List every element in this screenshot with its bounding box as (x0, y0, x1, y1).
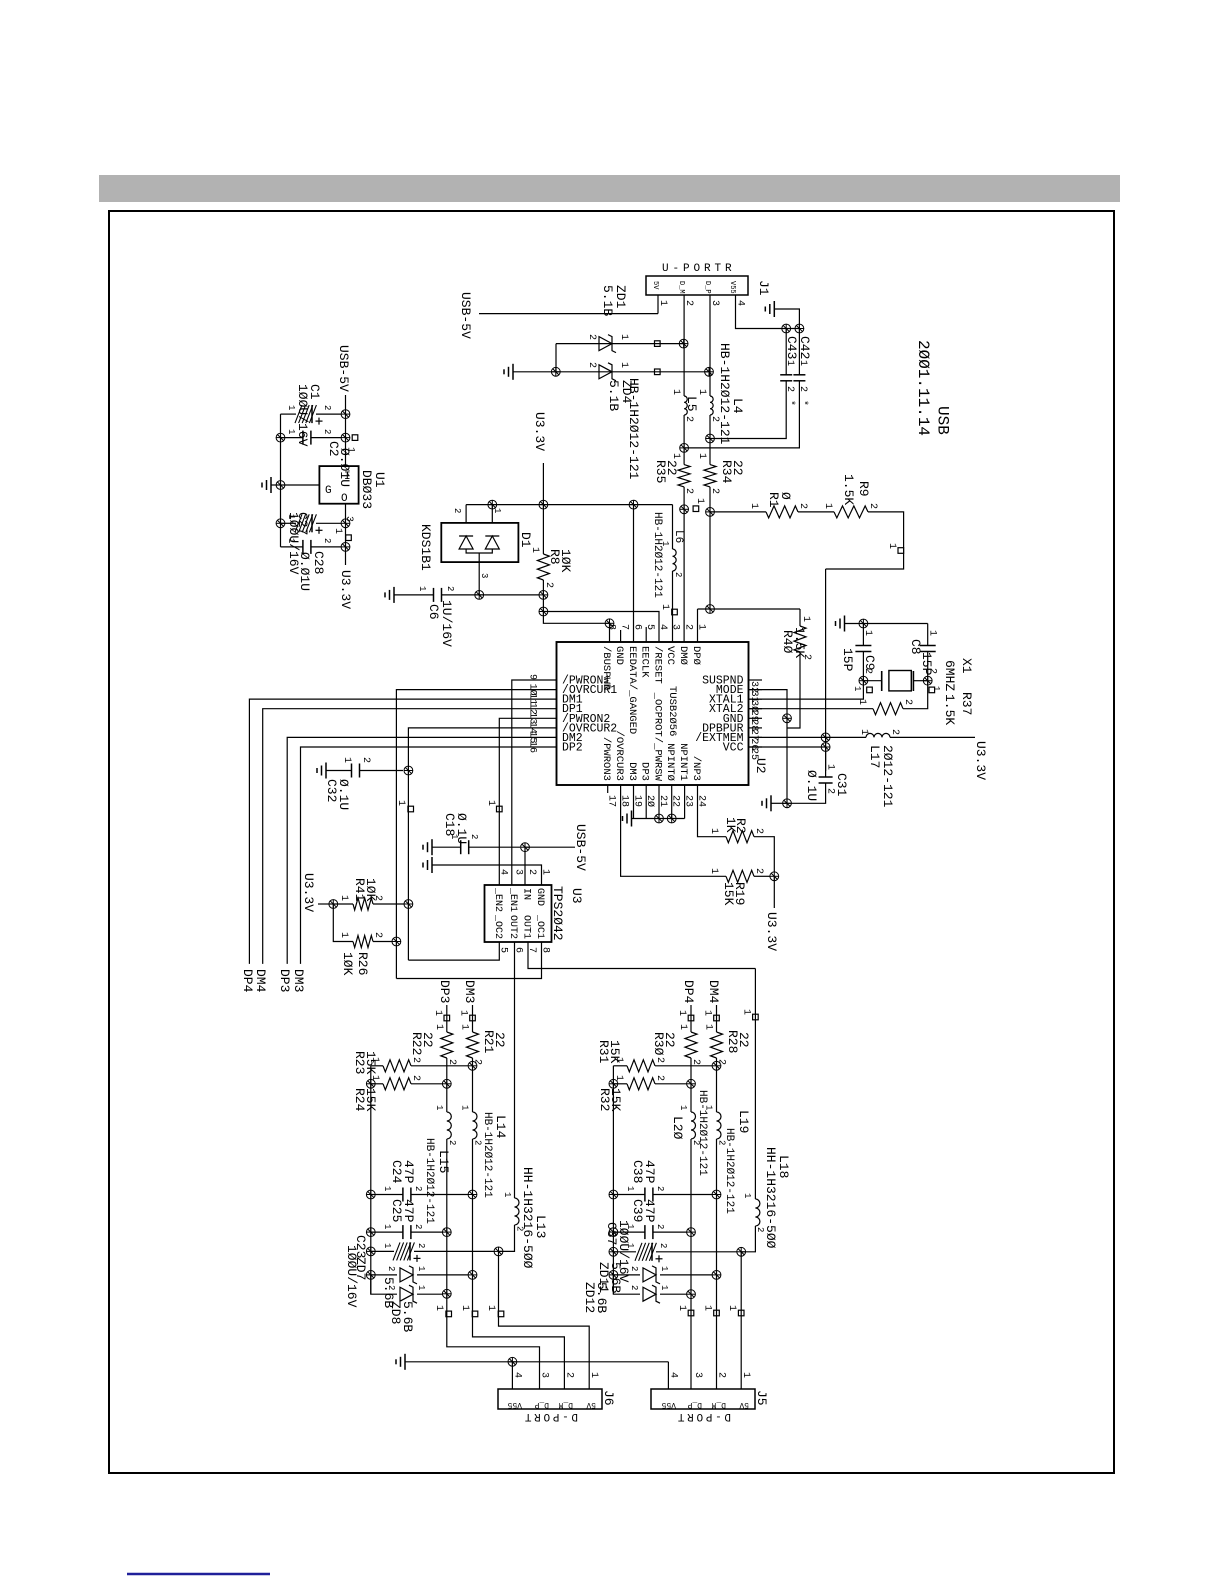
svg-text:1: 1 (822, 503, 833, 509)
svg-text:1: 1 (345, 447, 356, 453)
svg-text:47P: 47P (642, 1199, 657, 1223)
J5 pin4 wire (667, 1362, 669, 1389)
svg-text:3: 3 (709, 300, 720, 306)
junction C42 row rail684 (680, 444, 689, 453)
junction crystal right (923, 676, 932, 685)
regulator output rail (345, 504, 347, 565)
svg-text:2: 2 (902, 699, 913, 705)
rails DP3/DM3 down (446, 1139, 448, 1294)
svg-text:DM3: DM3 (291, 969, 306, 992)
svg-text:1.5K: 1.5K (942, 694, 957, 725)
junction C9 top (859, 619, 868, 628)
connector J6 D-PORT box (498, 1389, 602, 1409)
resistor R40 1.5K (799, 609, 801, 626)
svg-text:1: 1 (286, 538, 296, 543)
svg-text:L2Ø: L2Ø (670, 1116, 685, 1140)
svg-text:TUSB2Ø56: TUSB2Ø56 (666, 686, 678, 736)
rail x=710 segment (709, 372, 711, 396)
svg-text:5V: 5V (651, 281, 659, 290)
DM3 rail staircase to J6 pin2 (473, 1275, 565, 1389)
svg-text:2: 2 (322, 538, 332, 543)
svg-text:USB-5V: USB-5V (336, 345, 351, 392)
DM3 rail top (472, 1005, 474, 1032)
svg-text:HB-1H2Ø12-121: HB-1H2Ø12-121 (717, 343, 732, 445)
svg-text:2: 2 (469, 834, 479, 839)
J5 rail stubs (688, 1310, 694, 1316)
svg-text:2: 2 (927, 668, 938, 674)
svg-text:1: 1 (742, 1193, 752, 1198)
capacitor C23 100U/16V row (polarized) (366, 1247, 375, 1256)
svg-text:9: 9 (527, 674, 538, 680)
svg-text:DM4: DM4 (706, 980, 721, 1004)
svg-text:1: 1 (676, 1010, 687, 1016)
svg-text:D-PORT: D-PORT (522, 1410, 578, 1422)
svg-text:5V: 5V (739, 1400, 749, 1409)
svg-text:L13: L13 (533, 1215, 548, 1238)
svg-text:USB-5V: USB-5V (458, 292, 473, 339)
U3 OUT2 pin6 rail down to L13 (514, 942, 516, 1198)
rail710 R34 to junction (709, 487, 711, 512)
svg-text:1: 1 (395, 800, 406, 806)
svg-text:C28: C28 (311, 551, 326, 574)
svg-text:2: 2 (526, 869, 537, 875)
svg-text:1: 1 (670, 389, 681, 395)
svg-text:HB-1H2Ø12-121: HB-1H2Ø12-121 (696, 1090, 708, 1176)
svg-text:1: 1 (726, 1305, 737, 1311)
svg-text:1U/16V: 1U/16V (439, 600, 454, 647)
wire pin14 OVRCUR2 to column x=408 (408, 728, 556, 960)
svg-text:Ø.1U: Ø.1U (336, 779, 351, 810)
J1 pin 2 wire (rail x=684) (683, 295, 685, 344)
junction pin22 gnd (667, 814, 676, 823)
junction R31/DM4 (712, 1061, 721, 1070)
junction C43 top (782, 324, 791, 333)
svg-text:VCC: VCC (723, 742, 744, 755)
svg-text:5.6B: 5.6B (594, 1282, 609, 1313)
capacitor C18 and grounds (431, 839, 433, 855)
wire USB-5V to J1 pin1 (479, 313, 658, 315)
zener diode ZD4 (599, 365, 612, 379)
svg-text:U2: U2 (753, 758, 768, 774)
wire C8 bottom to junction (927, 652, 929, 681)
junction rail543 top (539, 500, 548, 509)
wire IC pin6 EEDATA riser (633, 505, 635, 642)
rail710 to R34 (709, 439, 711, 465)
U3 OUT1 pin7 wire to right port group (528, 942, 755, 969)
ground at IC pin19 (633, 785, 635, 819)
svg-text:U3.3V: U3.3V (973, 741, 988, 780)
svg-text:1: 1 (341, 757, 352, 763)
ground C31 (770, 795, 772, 811)
svg-text:1: 1 (708, 868, 719, 874)
wire C42 bottom to node (685, 381, 799, 448)
page gray header bar (99, 175, 1120, 202)
svg-text:22: 22 (730, 460, 745, 476)
svg-text:1: 1 (382, 1243, 392, 1248)
J6 pin4 wire (511, 1362, 513, 1389)
wire pin16 DP2 to far-left column DM3 (301, 747, 557, 964)
svg-text:5.6B: 5.6B (608, 1262, 623, 1293)
svg-text:1: 1 (703, 1024, 714, 1030)
svg-text:47P: 47P (401, 1160, 416, 1184)
junction crystal left (859, 676, 868, 685)
svg-text:J6: J6 (601, 1390, 616, 1406)
svg-text:U3.3V: U3.3V (764, 912, 779, 951)
svg-text:1: 1 (858, 729, 869, 735)
svg-text:1: 1 (485, 1305, 496, 1311)
capacitor C38 row (609, 1190, 618, 1199)
svg-text:HH-1H3216-5ØØ: HH-1H3216-5ØØ (763, 1147, 778, 1249)
resistor R22 22 (441, 1032, 453, 1058)
stub near rail684 (693, 506, 699, 512)
svg-text:1: 1 (659, 1285, 669, 1290)
svg-text:1: 1 (741, 1009, 752, 1015)
svg-text:IN: IN (521, 888, 532, 900)
junction left rail C2 row (276, 433, 285, 442)
rail x=543 from label (542, 463, 544, 505)
U3 GND pin1 to ground (431, 857, 433, 873)
DP3 rail staircase to J6 pin3 (447, 1294, 540, 1389)
rail x=710 segment 2 (709, 415, 711, 439)
svg-text:2: 2 (862, 668, 873, 674)
svg-text:2: 2 (654, 1075, 665, 1081)
svg-text:2: 2 (716, 1372, 727, 1378)
rail DM3 segment (472, 1058, 474, 1112)
svg-text:D_P: D_P (687, 1400, 702, 1409)
svg-text:J5: J5 (754, 1390, 769, 1406)
svg-text:22: 22 (662, 1032, 677, 1048)
resistor R32 15K (609, 1079, 618, 1088)
svg-text:22: 22 (492, 1032, 507, 1048)
svg-text:HB-1H2Ø12-121: HB-1H2Ø12-121 (423, 1138, 435, 1224)
svg-text:1: 1 (502, 1192, 512, 1197)
junction R24/DP3 (442, 1079, 451, 1088)
svg-text:C42: C42 (797, 336, 812, 359)
inductor L14 (473, 1112, 478, 1139)
capacitor C25 row (366, 1228, 375, 1237)
svg-text:1: 1 (927, 630, 938, 636)
svg-text:2: 2 (372, 895, 383, 901)
svg-text:2: 2 (360, 757, 371, 763)
svg-text:/OVRCUR3: /OVRCUR3 (613, 731, 625, 781)
inductor L4 (710, 396, 713, 415)
svg-text:GND: GND (534, 888, 545, 906)
svg-text:R19: R19 (732, 882, 747, 905)
junction GND pin28 on rail787 (783, 714, 792, 723)
svg-text:D_M: D_M (711, 1400, 726, 1409)
svg-text:7: 7 (619, 624, 630, 630)
svg-text:L19: L19 (736, 1110, 751, 1133)
left group DP3 rail (446, 1005, 448, 1032)
wire pin12 DP1 to far-left column DM4 (263, 709, 557, 964)
wire C8 drop (927, 624, 929, 646)
svg-text:_EN1: _EN1 (507, 887, 518, 912)
wire C31 bottom to ground junction (787, 783, 826, 803)
svg-text:TPS2Ø42: TPS2Ø42 (550, 886, 565, 941)
junction left rail C27 row (276, 519, 285, 528)
inductor L18 (755, 1199, 760, 1226)
rail684 to R35 (683, 448, 685, 465)
junction D1 pin3 / C6 row (475, 591, 484, 600)
zener ZD1 row wire (555, 344, 557, 372)
svg-text:DP4: DP4 (681, 980, 696, 1004)
svg-text:2: 2 (413, 1224, 423, 1229)
svg-text:1: 1 (856, 699, 867, 705)
svg-text:6MHZ: 6MHZ (942, 660, 957, 691)
zener ZD11 row (609, 1271, 618, 1280)
capacitor C9 15P (855, 645, 871, 647)
svg-text:L4: L4 (730, 398, 745, 414)
capacitor C42 (793, 374, 805, 376)
svg-text:1: 1 (678, 1105, 688, 1110)
svg-text:U3: U3 (569, 888, 584, 904)
crystal pin stubs (867, 687, 873, 693)
wire D1 top row (466, 504, 672, 506)
svg-text:C43: C43 (784, 336, 799, 359)
zener ZD4 row wire (513, 371, 708, 373)
capacitor C1 100U/16V (polarized) (281, 413, 297, 415)
svg-text:2ØØ1.11.14: 2ØØ1.11.14 (914, 340, 932, 436)
svg-text:2: 2 (797, 503, 808, 509)
svg-text:ZD7: ZD7 (353, 1257, 368, 1280)
inductor L6 on VCC pin3 (672, 505, 674, 549)
svg-text:2: 2 (446, 1059, 457, 1065)
resistor R23 15K (371, 1065, 383, 1067)
svg-text:GND: GND (613, 646, 625, 665)
svg-text:ZD1: ZD1 (613, 285, 628, 309)
capacitor C27 100U/16V (polarized) (281, 522, 297, 524)
J6 rail stubs (446, 1311, 452, 1317)
svg-text:1: 1 (702, 1305, 713, 1311)
svg-text:R9: R9 (856, 481, 871, 497)
svg-text:22: 22 (664, 460, 679, 476)
svg-text:1: 1 (338, 932, 349, 938)
resistor R35 22 (678, 465, 690, 487)
wire R9 to rail top corner (826, 512, 904, 569)
resistor R37 1.5K on XTAL2 (749, 708, 874, 710)
svg-text:HB-1H2Ø12-121: HB-1H2Ø12-121 (723, 1128, 735, 1214)
capacitor C37 100U/16V row (polarized) (609, 1247, 618, 1256)
IC U3 TPS2042 box (485, 885, 552, 942)
svg-text:2: 2 (322, 405, 332, 410)
capacitor C24 row (366, 1190, 375, 1199)
svg-text:1: 1 (696, 624, 707, 630)
svg-text:1: 1 (862, 630, 873, 636)
svg-text:DBØ33: DBØ33 (359, 470, 374, 509)
svg-text:2: 2 (658, 1243, 668, 1248)
wire pin13 PWRON2 to U3 EN2 (499, 718, 556, 885)
right group DP4 rail (690, 1005, 692, 1032)
svg-text:DM3: DM3 (462, 980, 477, 1003)
svg-text:1: 1 (659, 604, 670, 610)
D1 pin1 wire (491, 505, 493, 523)
svg-text:2: 2 (655, 1224, 665, 1229)
capacitor C8 15P (920, 645, 936, 647)
crystal X1 symbol (863, 680, 881, 682)
wire reset line rail543 to IC pin4 (543, 612, 659, 643)
svg-text:2: 2 (629, 1266, 639, 1271)
svg-text:1: 1 (529, 547, 540, 553)
ZD1 pin stub (655, 341, 661, 347)
resistor R9 1.5K (834, 506, 868, 518)
rail684 down to IC pin2 DM0 (683, 509, 685, 642)
stub on x=903 wire (898, 548, 904, 554)
svg-text:/NP3: /NP3 (690, 756, 702, 781)
IC top pin stubs 7 5 4 3 (620, 630, 622, 642)
svg-text:2: 2 (372, 932, 383, 938)
wire pin15 DM2 to far-left column DP3 (287, 737, 556, 964)
junction rail710 y=512 (R1 feed) (706, 508, 715, 517)
resistor R26 10K (333, 904, 353, 942)
svg-text:DP3: DP3 (639, 762, 651, 781)
svg-text:L6: L6 (672, 530, 684, 543)
ground C6 (393, 587, 395, 603)
junction C27 row (341, 519, 350, 528)
wire pin10 OVRCUR1 to column x=396 (396, 690, 556, 979)
svg-text:2: 2 (386, 1266, 396, 1271)
svg-text:1: 1 (416, 1266, 426, 1271)
rail x=741.2 down to J5 pin1 (740, 1252, 742, 1389)
svg-text:1: 1 (618, 362, 629, 368)
svg-text:1: 1 (784, 360, 795, 366)
svg-text:2: 2 (753, 868, 764, 874)
svg-text:3: 3 (513, 869, 524, 875)
svg-text:C6: C6 (426, 604, 441, 620)
USB-5V into U3 IN pin2 (525, 846, 575, 848)
L13 bottom to C23 junction (499, 1225, 515, 1251)
svg-text:1: 1 (338, 895, 349, 901)
left rail for caps (280, 414, 282, 547)
svg-text:1: 1 (433, 1305, 444, 1311)
svg-text:D_M: D_M (677, 281, 685, 294)
svg-text:2: 2 (586, 362, 597, 368)
svg-text:D_M: D_M (558, 1400, 573, 1409)
D1 pin2 wire (465, 505, 467, 523)
svg-text:17: 17 (606, 795, 617, 807)
svg-text:1: 1 (740, 1372, 751, 1378)
svg-text:1: 1 (613, 1057, 624, 1063)
svg-text:2: 2 (690, 1059, 701, 1065)
svg-text:2: 2 (386, 1285, 396, 1290)
capacitor C2 0.01U (281, 437, 304, 439)
svg-text:1: 1 (886, 543, 897, 549)
svg-text:1: 1 (676, 1305, 687, 1311)
capacitor C39 row (609, 1228, 618, 1237)
svg-text:X1: X1 (959, 658, 974, 674)
rail to C31 (825, 747, 827, 777)
svg-text:5V: 5V (586, 1400, 596, 1409)
svg-text:2: 2 (801, 654, 812, 660)
svg-text:22: 22 (420, 1032, 435, 1048)
svg-text:2: 2 (413, 1186, 423, 1191)
junction R32/DP4 (687, 1079, 696, 1088)
U3 OC1 pin8 wire to column x=396 (396, 942, 541, 979)
svg-text:1: 1 (702, 1010, 713, 1016)
svg-text:DPØ: DPØ (690, 646, 702, 665)
D1 diodes (459, 536, 473, 549)
svg-text:1: 1 (659, 1266, 669, 1271)
svg-text:1: 1 (696, 453, 707, 459)
svg-text:47P: 47P (401, 1199, 416, 1223)
svg-text:D_P: D_P (534, 1400, 549, 1409)
svg-text:1: 1 (825, 764, 836, 770)
svg-text:USB-5V: USB-5V (573, 824, 588, 871)
svg-text:_OC2: _OC2 (492, 914, 503, 939)
J1 pin 3 wire (rail x=710) (709, 295, 711, 372)
svg-text:1: 1 (748, 503, 759, 509)
L18 rail from OUT1 (754, 969, 756, 1200)
svg-text:R37: R37 (959, 692, 974, 715)
svg-text:1: 1 (369, 1057, 380, 1063)
resistor R2 1K from pin24 (698, 785, 727, 837)
svg-text:1: 1 (931, 686, 941, 691)
svg-text:1: 1 (485, 800, 496, 806)
ZD4 pin stub (655, 369, 661, 375)
rail x=684 segment (683, 344, 685, 396)
svg-text:1: 1 (852, 686, 862, 691)
svg-text:2: 2 (447, 1140, 457, 1145)
svg-text:2: 2 (673, 572, 683, 577)
svg-text:EECLK: EECLK (639, 646, 651, 678)
rail543 to IC pin8/pin4 (drawn above) (542, 595, 544, 612)
capacitor C32 with ground (325, 763, 327, 779)
junction ZD1 to rail684 (679, 339, 688, 348)
U1 ground pin wire (281, 484, 320, 486)
svg-text:DP4: DP4 (240, 969, 255, 993)
svg-text:2: 2 (709, 488, 720, 494)
rail x=825.6 down (825, 569, 827, 771)
rail DP3 segment (446, 1058, 448, 1112)
junction rail710 y=609 (706, 605, 715, 614)
svg-text:R26: R26 (355, 952, 370, 975)
rails DP4/DM4 down to caps (690, 1139, 692, 1294)
wire IC pin17 stub (607, 785, 609, 793)
capacitor C43 (780, 374, 792, 376)
junction pin21 gnd (655, 814, 664, 823)
ground bus wire (405, 1361, 668, 1363)
svg-text:1: 1 (458, 1010, 469, 1016)
junction at IC pin6 riser (629, 500, 638, 509)
rail x=498.5 to J6 staircase (499, 1251, 590, 1389)
wire R1 to R9 (798, 511, 834, 513)
junction C1 row (341, 410, 350, 419)
svg-text:5.6B: 5.6B (400, 1301, 415, 1332)
wire L17 row pin26 (749, 736, 867, 738)
svg-text:HB-1H2Ø12-121: HB-1H2Ø12-121 (651, 512, 663, 598)
svg-text:2: 2 (452, 508, 462, 513)
svg-text:2Ø12-121: 2Ø12-121 (880, 745, 895, 808)
svg-text:HB-1H2Ø12-121: HB-1H2Ø12-121 (481, 1112, 493, 1198)
junction ZD4 to rail710 (705, 367, 714, 376)
wire C42 vertical (798, 329, 800, 375)
stub on output rail (346, 535, 352, 541)
svg-text:1: 1 (696, 389, 707, 395)
svg-text:1: 1 (800, 616, 811, 622)
svg-text:15P: 15P (840, 648, 855, 672)
svg-text:3: 3 (692, 1372, 703, 1378)
junction rail543/C6 (539, 591, 548, 600)
svg-text:1: 1 (459, 1305, 470, 1311)
svg-text:3: 3 (479, 573, 489, 578)
svg-text:D-PORT: D-PORT (675, 1410, 731, 1422)
svg-text:U3.3V: U3.3V (532, 412, 547, 451)
junction ZD4 row at x=556 (551, 367, 560, 376)
wire junction to R1 (710, 511, 766, 513)
svg-text:/PWRON3: /PWRON3 (600, 737, 612, 781)
svg-text:1: 1 (625, 1243, 635, 1248)
wire C9 bottom to junction (862, 652, 864, 681)
svg-text:Ø: Ø (778, 492, 793, 500)
